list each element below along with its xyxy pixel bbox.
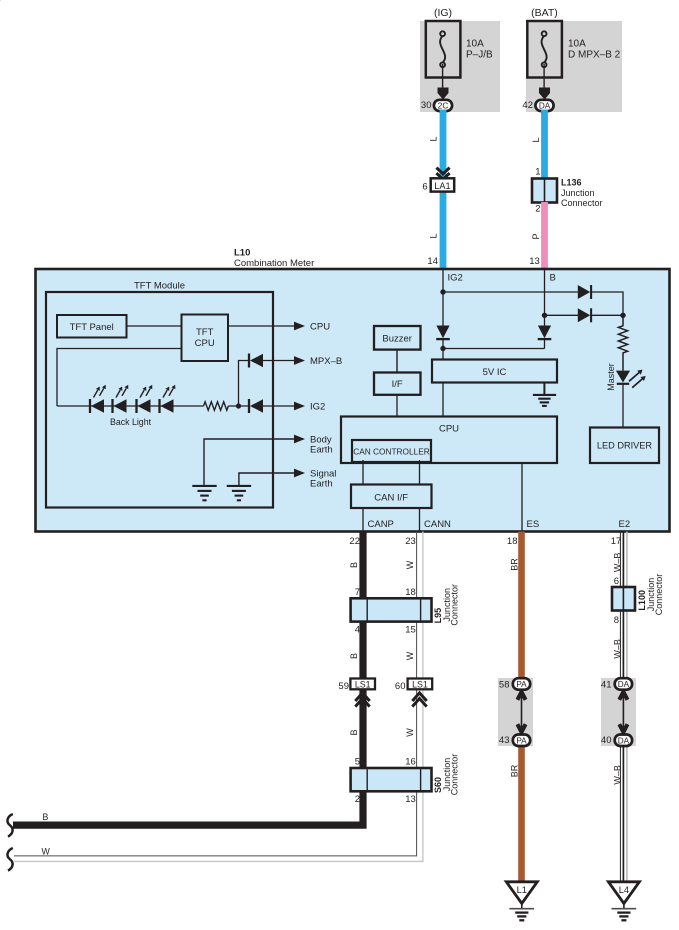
svg-text:DA: DA bbox=[539, 101, 551, 110]
svg-text:CPU: CPU bbox=[310, 322, 330, 333]
resistor R1 (backlight) bbox=[204, 402, 229, 410]
svg-text:7: 7 bbox=[355, 587, 360, 598]
svg-text:13: 13 bbox=[405, 794, 416, 805]
svg-text:D MPX–B 2: D MPX–B 2 bbox=[568, 50, 621, 61]
wire IG2 to diode D3 bbox=[443, 291, 578, 293]
wire resistor to node bbox=[228, 405, 249, 407]
svg-text:43: 43 bbox=[499, 735, 510, 746]
svg-text:(BAT): (BAT) bbox=[531, 7, 558, 19]
svg-text:41: 41 bbox=[601, 680, 612, 691]
wire 5V IC to ground bbox=[543, 383, 545, 395]
svg-text:CAN CONTROLLER: CAN CONTROLLER bbox=[353, 446, 430, 456]
diode D3 (to LED circuit) bbox=[578, 285, 591, 299]
ground point L4 bbox=[608, 882, 639, 921]
svg-text:B: B bbox=[349, 562, 359, 568]
svg-text:1: 1 bbox=[535, 167, 540, 178]
arrow MPX-B bbox=[294, 356, 305, 365]
connector oval 2C bbox=[434, 100, 452, 111]
svg-text:W–B: W–B bbox=[613, 765, 623, 785]
wire B (black) CANP run bbox=[13, 532, 363, 826]
TFT Module block bbox=[46, 292, 273, 508]
junction connector L136 bbox=[532, 178, 603, 209]
5V IC block bbox=[432, 360, 557, 383]
svg-text:17: 17 bbox=[611, 536, 622, 547]
svg-text:PA: PA bbox=[516, 736, 527, 745]
svg-text:LS1: LS1 bbox=[412, 680, 428, 690]
ground (body earth) bbox=[192, 486, 216, 500]
svg-text:TFT: TFT bbox=[196, 327, 214, 338]
svg-text:B: B bbox=[43, 812, 49, 822]
svg-text:40: 40 bbox=[601, 735, 612, 746]
arrow Signal Earth bbox=[294, 469, 305, 478]
wire TFT CPU to CPU arrow bbox=[228, 325, 295, 327]
wire W-B E2 runs bbox=[620, 532, 627, 882]
svg-text:LS1: LS1 bbox=[355, 680, 371, 690]
svg-text:LED DRIVER: LED DRIVER bbox=[597, 441, 653, 451]
wire D6 to junction row bbox=[544, 339, 546, 348]
chevron splice marker (CANN) bbox=[412, 693, 426, 707]
LED master bbox=[616, 370, 646, 388]
svg-text:Back Light: Back Light bbox=[110, 417, 152, 427]
svg-text:W–B: W–B bbox=[613, 639, 623, 659]
svg-text:CAN I/F: CAN I/F bbox=[374, 493, 408, 504]
svg-text:L4: L4 bbox=[619, 885, 629, 895]
node 5V feed bbox=[440, 346, 445, 351]
wire CAN I/F to CANN pin bbox=[419, 508, 421, 532]
double arrow between DA connectors bbox=[619, 692, 627, 732]
diode D5 (IG2 down) bbox=[436, 326, 450, 340]
svg-text:L: L bbox=[429, 136, 439, 141]
svg-text:L10: L10 bbox=[234, 248, 250, 259]
power block IG (P-J/B) background bbox=[420, 21, 500, 112]
gray highlight (DA pair) bbox=[601, 678, 636, 746]
svg-text:B: B bbox=[550, 273, 556, 284]
wire D4 to right column bbox=[591, 314, 623, 316]
svg-text:W: W bbox=[405, 651, 415, 660]
wire signal earth bbox=[239, 473, 295, 485]
wire BR (brown) ES run upper bbox=[518, 532, 525, 685]
svg-text:13: 13 bbox=[529, 256, 540, 267]
junction connector L95 bbox=[351, 598, 432, 621]
svg-text:16: 16 bbox=[405, 757, 416, 768]
svg-text:Buzzer: Buzzer bbox=[382, 334, 412, 345]
svg-text:Junction: Junction bbox=[561, 188, 595, 198]
chevron splice marker (CANP) bbox=[355, 693, 369, 707]
wire buzzer to I/F bbox=[396, 350, 398, 373]
svg-text:30: 30 bbox=[421, 100, 432, 111]
svg-text:2C: 2C bbox=[438, 101, 449, 110]
wire body earth bbox=[204, 439, 295, 485]
wire junction row bbox=[443, 348, 545, 350]
wire 5V IC to CPU bbox=[442, 383, 444, 417]
svg-text:IG2: IG2 bbox=[310, 402, 325, 413]
LED backlight 2 bbox=[113, 385, 129, 413]
SECTION: tft module bbox=[0, 0, 342, 508]
svg-text:CANP: CANP bbox=[368, 519, 394, 530]
svg-text:CANN: CANN bbox=[424, 519, 451, 530]
ground (signal earth) bbox=[227, 486, 251, 500]
svg-text:W: W bbox=[405, 560, 415, 569]
node B branch bbox=[542, 313, 547, 318]
wire W (white) CANN run: dark edge bbox=[14, 532, 417, 856]
svg-text:15: 15 bbox=[405, 625, 416, 636]
wire continuation squiggle (B) bbox=[7, 814, 12, 837]
CPU block bbox=[341, 417, 557, 464]
svg-text:LA1: LA1 bbox=[434, 181, 450, 191]
connector oval DA (40) bbox=[615, 735, 632, 747]
connector LS1 (CANN) bbox=[408, 679, 433, 690]
connector LA1 pin 6 bbox=[422, 178, 454, 192]
arrow from fuse F1 to connector 2C bbox=[438, 88, 449, 100]
svg-text:6: 6 bbox=[422, 181, 427, 192]
wire D5 to node bbox=[442, 339, 444, 359]
wire CAN controller to CAN I/F (left) bbox=[362, 460, 364, 485]
wire CAN I/F to CANP pin bbox=[362, 508, 364, 532]
resistor R2 (LED series) bbox=[618, 315, 627, 370]
svg-text:P: P bbox=[531, 233, 541, 239]
svg-text:B: B bbox=[349, 653, 359, 659]
diode D6 (B down) bbox=[538, 326, 552, 340]
diode D1 (MPX-B) bbox=[249, 354, 263, 368]
svg-text:MPX–B: MPX–B bbox=[310, 356, 342, 367]
svg-text:18: 18 bbox=[405, 587, 416, 598]
combination meter L10 block bbox=[36, 269, 670, 532]
arrow CPU bbox=[294, 322, 305, 331]
svg-text:2: 2 bbox=[355, 794, 360, 805]
wire P (pink) from L136 to pin 13 bbox=[541, 202, 548, 270]
wire IG2 to arrow bbox=[263, 405, 295, 407]
svg-text:L136: L136 bbox=[561, 178, 582, 188]
wire backlight feed (left vertical) bbox=[57, 349, 182, 407]
svg-text:ES: ES bbox=[527, 519, 540, 530]
connector oval DA (41) bbox=[615, 678, 632, 690]
wire TFT Panel to TFT CPU bbox=[127, 325, 182, 327]
svg-text:10A: 10A bbox=[466, 39, 484, 50]
svg-text:Combination Meter: Combination Meter bbox=[234, 258, 314, 269]
arrow Body Earth bbox=[294, 435, 305, 444]
svg-text:DA: DA bbox=[618, 680, 630, 689]
svg-text:Connector: Connector bbox=[654, 574, 664, 616]
node backlight/diode junction bbox=[236, 403, 241, 408]
SECTION: top fuse area bbox=[420, 7, 622, 112]
wire W (white) CANN run: light edge bbox=[14, 532, 423, 862]
svg-text:B: B bbox=[349, 729, 359, 735]
wire B to diode D4 bbox=[545, 314, 579, 316]
svg-text:Earth: Earth bbox=[310, 479, 333, 490]
junction connector L100 bbox=[612, 587, 635, 611]
node IG2 branch bbox=[440, 289, 445, 294]
ground (5V IC) bbox=[533, 395, 556, 406]
svg-text:P–J/B: P–J/B bbox=[466, 50, 493, 61]
svg-text:L: L bbox=[429, 233, 439, 238]
ground point L1 bbox=[506, 882, 537, 921]
double arrow between PA connectors bbox=[517, 692, 525, 732]
svg-text:W: W bbox=[405, 728, 415, 737]
svg-text:23: 23 bbox=[405, 536, 416, 547]
svg-text:5: 5 bbox=[355, 757, 360, 768]
svg-text:Master: Master bbox=[606, 363, 616, 391]
wire I/F to CPU bbox=[396, 395, 398, 417]
svg-text:8: 8 bbox=[614, 615, 619, 626]
svg-text:2: 2 bbox=[535, 204, 540, 215]
svg-text:Connector: Connector bbox=[450, 754, 460, 796]
wire L (blue) from DA to L136 bbox=[541, 110, 548, 180]
svg-text:(IG): (IG) bbox=[434, 7, 452, 19]
fuse F2 10A D MPX-B 2 bbox=[527, 21, 562, 92]
svg-text:BR: BR bbox=[509, 558, 519, 571]
svg-text:10A: 10A bbox=[568, 39, 586, 50]
svg-text:4: 4 bbox=[355, 625, 360, 636]
chevron splice marker on wire L bbox=[436, 168, 449, 180]
wire BR (brown) ES run lower bbox=[518, 740, 525, 881]
LED backlight 4 bbox=[160, 385, 176, 413]
svg-text:18: 18 bbox=[507, 536, 518, 547]
svg-text:22: 22 bbox=[349, 536, 360, 547]
svg-text:58: 58 bbox=[499, 680, 510, 691]
svg-text:IG2: IG2 bbox=[448, 273, 463, 284]
svg-text:42: 42 bbox=[522, 100, 533, 111]
CAN CONTROLLER block bbox=[352, 440, 431, 462]
wire MPX-B branch vertical bbox=[239, 361, 249, 407]
SECTION: right ic area bbox=[341, 269, 659, 532]
junction connector S60 bbox=[351, 768, 432, 791]
svg-text:6: 6 bbox=[614, 576, 619, 587]
arrow from fuse F2 to connector DA bbox=[539, 88, 550, 100]
connector LS1 (CANP) bbox=[350, 679, 375, 690]
fuse F1 10A P-J/B bbox=[426, 21, 461, 92]
diode D4 (to LED circuit) bbox=[578, 308, 591, 322]
LED backlight 3 bbox=[137, 385, 153, 413]
connector oval PA (43) bbox=[513, 735, 530, 747]
SECTION: bottom wiring bbox=[7, 532, 663, 921]
svg-text:W–B: W–B bbox=[613, 553, 623, 573]
CAN I/F block bbox=[351, 485, 432, 509]
svg-text:L: L bbox=[531, 137, 541, 142]
svg-text:W: W bbox=[42, 847, 51, 857]
svg-text:DA: DA bbox=[618, 736, 630, 745]
node right column bbox=[620, 313, 625, 318]
arrow IG2 bbox=[294, 402, 305, 411]
power block BAT (D MPX-B 2) background bbox=[526, 21, 622, 112]
svg-text:E2: E2 bbox=[619, 519, 631, 530]
SECTION: wires top bbox=[422, 110, 602, 270]
svg-text:60: 60 bbox=[395, 681, 406, 692]
svg-text:BR: BR bbox=[509, 764, 519, 777]
wire continuation squiggle (W) bbox=[7, 848, 12, 871]
wire LED to LED DRIVER bbox=[622, 384, 624, 428]
connector oval DA bbox=[535, 100, 553, 111]
wire IG2 vertical bbox=[442, 269, 444, 326]
svg-text:PA: PA bbox=[516, 680, 527, 689]
svg-text:TFT Panel: TFT Panel bbox=[70, 322, 114, 333]
LED DRIVER block bbox=[590, 428, 659, 464]
wire L (blue) from 2C to pin 14 bbox=[440, 110, 447, 270]
wire B vertical bbox=[544, 269, 546, 326]
svg-text:TFT Module: TFT Module bbox=[134, 281, 185, 292]
gray highlight (PA pair) bbox=[498, 678, 533, 746]
svg-text:14: 14 bbox=[427, 256, 438, 267]
TFT CPU block bbox=[182, 315, 229, 362]
wire D3 to right column bbox=[591, 292, 623, 315]
connector oval PA (58) bbox=[513, 678, 530, 690]
svg-text:I/F: I/F bbox=[392, 379, 403, 390]
SECTION: combination meter box bbox=[36, 248, 670, 532]
wire CAN controller to CAN I/F (right) bbox=[419, 460, 421, 485]
svg-text:59: 59 bbox=[338, 681, 349, 692]
svg-text:L1: L1 bbox=[517, 885, 527, 895]
Buzzer block bbox=[374, 326, 421, 350]
svg-text:5V IC: 5V IC bbox=[483, 367, 507, 378]
diode D2 (IG2) bbox=[249, 399, 263, 413]
backlight LED row wire bbox=[57, 405, 204, 407]
svg-text:Connector: Connector bbox=[450, 584, 460, 626]
TFT Panel block bbox=[57, 315, 127, 338]
svg-text:CPU: CPU bbox=[195, 338, 215, 349]
svg-text:Earth: Earth bbox=[310, 445, 333, 456]
svg-text:Connector: Connector bbox=[561, 198, 603, 208]
I/F block bbox=[374, 373, 421, 395]
svg-text:CPU: CPU bbox=[439, 424, 459, 435]
wire CPU to ES pin bbox=[521, 463, 523, 532]
wire MPX-B to arrow bbox=[263, 360, 295, 362]
